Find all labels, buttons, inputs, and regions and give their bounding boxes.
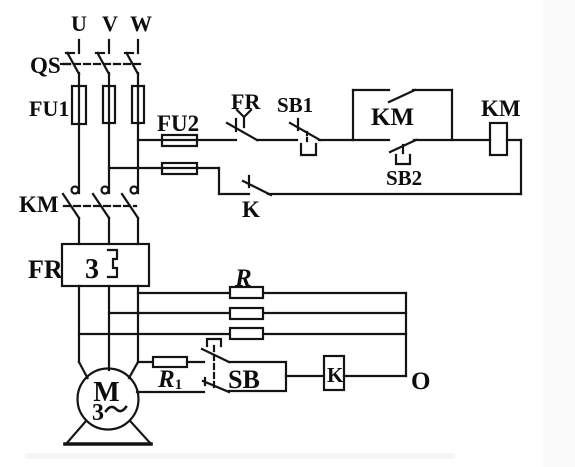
wire: FU2 lower to corner	[197, 167, 219, 169]
fuse FU1 pole 1	[78, 87, 80, 124]
svg-text:3: 3	[92, 400, 104, 426]
switch QS pole 1 blade	[68, 53, 80, 74]
contactor KM main pole 1	[72, 187, 79, 194]
contactor KM linkage (dashed)	[64, 205, 136, 207]
svg-text:KM: KM	[19, 192, 59, 217]
wire: U QS to FU1	[78, 73, 80, 87]
wire: SB1 to KM branch node	[319, 139, 353, 141]
wire: V FR box down	[108, 286, 110, 370]
wire: U FR box down	[78, 286, 80, 362]
resistor R element 1	[230, 287, 263, 298]
wire: U slant to motor	[79, 362, 88, 378]
resistor R1 element	[153, 357, 187, 367]
relay contact K blade	[243, 181, 271, 195]
faint scan tint right band	[542, 0, 575, 467]
wire: U FU1 to KM contact	[78, 124, 80, 193]
svg-text:O: O	[411, 368, 430, 395]
switch SB upper blade	[202, 349, 229, 362]
wire: W FU1 to KM contact	[137, 124, 139, 193]
relay coil K box	[324, 356, 344, 390]
fuse FU2 lower	[162, 167, 197, 169]
thermal relay FR heater box	[62, 244, 149, 286]
wire: branch right riser	[451, 90, 453, 140]
wire: R1 to SB upper contact	[187, 361, 204, 363]
motor stand right leg	[131, 422, 151, 444]
wire: W tap to FU2 upper	[138, 139, 162, 141]
motor M circle	[78, 369, 139, 430]
svg-text:FR: FR	[28, 255, 63, 284]
wire: right collector riser	[405, 293, 407, 376]
wire: V supply stub	[108, 40, 110, 53]
motor stand left leg	[66, 421, 86, 444]
wire: SB box to K box	[286, 375, 324, 377]
wire: coil to right corner	[507, 139, 521, 141]
fuse FU1 pole 3	[137, 87, 139, 124]
pushbutton SB1 cap	[301, 144, 316, 155]
wire: corner drop to K	[218, 168, 220, 194]
contactor KM main pole 3	[131, 187, 138, 194]
pushbutton SB1 (NC) blade	[290, 123, 320, 140]
wire: FR to SB1	[257, 139, 297, 141]
wire: V tap to FU2 lower	[109, 167, 162, 169]
svg-text:FU2: FU2	[157, 111, 199, 136]
pushbutton SB2 cap	[396, 155, 410, 164]
wire: W slant to motor	[129, 362, 138, 378]
wire: branch top right	[413, 89, 452, 91]
switch QS label tick	[61, 63, 70, 65]
wire: motor to SB lower contact	[137, 391, 204, 393]
wire: bottom return rail	[268, 193, 521, 195]
thermal contact FR (NC) blade	[227, 123, 257, 140]
wire: right drop	[520, 140, 522, 194]
wire: branch left riser	[352, 90, 354, 140]
svg-text:SB: SB	[228, 365, 260, 394]
fuse FU2 upper	[162, 139, 197, 141]
wire: SB2 left rail	[353, 139, 389, 141]
thermal relay FR heater element	[108, 250, 117, 277]
svg-text:FR: FR	[231, 89, 261, 114]
switch QS pole 3 blade	[127, 53, 139, 74]
wire: R branch 2 (from V)	[109, 312, 406, 314]
switch SB actuator stem (dashed)	[213, 346, 215, 388]
wire: V QS to FU1	[108, 73, 110, 87]
wire: branch top left	[353, 89, 389, 91]
svg-text:U: U	[71, 11, 87, 36]
contact KM auxiliary (NO) blade	[389, 90, 415, 102]
svg-text:SB1: SB1	[277, 93, 313, 117]
resistor R element 3	[230, 328, 263, 339]
wire: K left rail	[219, 193, 249, 195]
svg-text:KM: KM	[481, 96, 521, 121]
wire: W FR box down	[137, 286, 139, 362]
svg-text:K: K	[242, 197, 260, 222]
wire: W supply stub	[137, 40, 139, 53]
resistor R element 2	[230, 308, 263, 319]
svg-text:QS: QS	[30, 53, 61, 78]
wire: FU2 upper to FR contact	[197, 139, 236, 141]
wire: W KM to FR box	[137, 218, 139, 244]
wire: U KM to FR box	[78, 218, 80, 244]
wire: V FU1 to KM contact	[108, 124, 110, 193]
wire: W junction to R1	[138, 361, 153, 363]
motor stand base	[65, 442, 151, 446]
pushbutton SB1 actuator stem (dashed)	[306, 132, 308, 144]
pushbutton SB2 (NO) blade	[390, 140, 416, 152]
switch SB lower blade	[203, 381, 229, 392]
wire: K box to node O	[344, 375, 406, 377]
switch QS pole 2 blade	[98, 53, 110, 74]
wire: SB2 right rail to coil	[414, 139, 490, 141]
svg-text:3: 3	[85, 254, 99, 285]
svg-text:KM: KM	[371, 104, 414, 131]
switch QS linkage (dashed)	[64, 63, 140, 65]
svg-text:V: V	[102, 11, 118, 36]
svg-text:SB2: SB2	[386, 166, 422, 190]
wire: R branch 1 (from W)	[138, 292, 406, 294]
wire: V KM to FR box	[108, 218, 110, 244]
svg-text:K: K	[327, 363, 344, 387]
wire: R branch 3 (from U)	[79, 333, 406, 335]
pushbutton SB2 actuator stem (dashed)	[402, 145, 404, 155]
svg-text:FU1: FU1	[29, 96, 69, 121]
wire: U supply stub	[78, 40, 80, 53]
svg-text:W: W	[130, 11, 152, 36]
switch SB actuator cap	[207, 339, 221, 346]
fuse FU1 pole 2	[108, 87, 110, 124]
wire: W QS to FU1	[137, 73, 139, 87]
contactor KM main pole 2	[102, 187, 109, 194]
svg-text:R1: R1	[157, 366, 182, 393]
thermal contact FR trip arrow	[237, 110, 251, 127]
coil KM	[490, 123, 507, 155]
faint scan smudge bottom	[25, 453, 455, 459]
switch SB box	[229, 362, 286, 391]
